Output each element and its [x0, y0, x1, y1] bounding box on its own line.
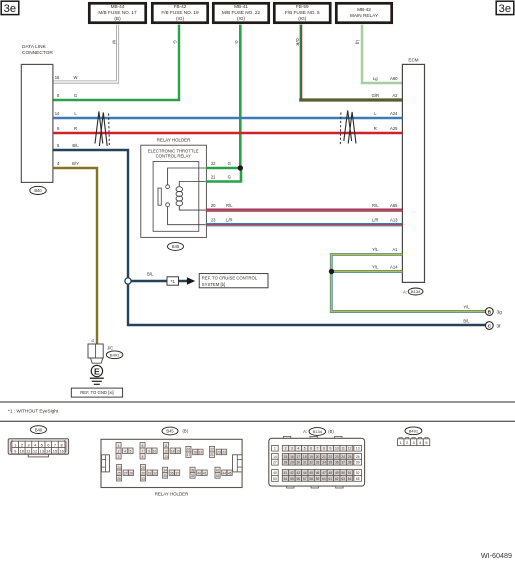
- svg-text:12: 12: [164, 449, 168, 453]
- svg-text:A:: A:: [403, 289, 407, 294]
- svg-text:R/L: R/L: [372, 203, 379, 208]
- svg-text:24: 24: [117, 466, 121, 470]
- svg-text:MB-41: MB-41: [234, 4, 248, 9]
- junction node (Y/L wires): [329, 269, 334, 274]
- svg-text:Y/L: Y/L: [372, 247, 379, 252]
- svg-text:13: 13: [164, 455, 168, 459]
- footnote box *1: [167, 277, 179, 285]
- B45 pin cluster 34-37: [163, 467, 180, 478]
- wire L/R relay pin 23 to ECM A13: [206, 224, 403, 226]
- svg-text:10: 10: [20, 449, 25, 454]
- svg-text:16: 16: [59, 449, 64, 454]
- svg-text:MB-44: MB-44: [111, 4, 125, 9]
- page label 3e left: [1, 1, 19, 15]
- svg-text:50: 50: [341, 471, 345, 475]
- DLC pin 16 label (W): [55, 75, 78, 80]
- wire R (red) DLC 6 to ECM A25: [53, 132, 403, 134]
- separator line upper: [0, 401, 515, 403]
- relay holder label B45 (oval): [168, 243, 184, 251]
- svg-text:3g: 3g: [497, 310, 503, 316]
- svg-text:59: 59: [316, 477, 320, 481]
- svg-text:27: 27: [273, 461, 277, 465]
- svg-text:21: 21: [322, 455, 326, 459]
- svg-text:60: 60: [322, 477, 326, 481]
- svg-text:51: 51: [348, 471, 352, 475]
- svg-text:16: 16: [55, 75, 60, 80]
- svg-text:42: 42: [290, 471, 294, 475]
- svg-text:WI-60489: WI-60489: [481, 551, 512, 560]
- svg-text:3: 3: [413, 440, 415, 445]
- svg-text:1: 1: [274, 447, 276, 451]
- ECM connector label A: B134 (oval): [403, 288, 423, 295]
- svg-text:RELAY HOLDER: RELAY HOLDER: [157, 138, 191, 143]
- svg-text:G: G: [173, 40, 178, 43]
- svg-text:44: 44: [222, 471, 226, 475]
- arrow to cruise control ref: [187, 277, 195, 284]
- connector pinout B40 (data link connector): [8, 439, 68, 457]
- DLC pin 4 label (B/Y): [57, 161, 79, 166]
- ref box: REF. TO CRUISE CONTROL SYSTEM: [199, 274, 268, 288]
- svg-text:1: 1: [118, 444, 120, 448]
- wire R/L relay pin 20 to ECM A65: [206, 209, 403, 211]
- svg-text:*1 : WITHOUT EyeSight: *1 : WITHOUT EyeSight: [8, 408, 59, 413]
- svg-text:REF. TO CRUISE CONTROL: REF. TO CRUISE CONTROL: [202, 275, 258, 280]
- svg-text:B134: B134: [313, 429, 323, 434]
- svg-text:37: 37: [175, 471, 179, 475]
- svg-text:34: 34: [163, 469, 167, 473]
- svg-text:2: 2: [285, 447, 287, 451]
- svg-text:45: 45: [309, 471, 313, 475]
- B45 pin cluster 42-45: [215, 467, 232, 478]
- svg-text:SYSTEM [b]: SYSTEM [b]: [202, 282, 225, 287]
- svg-text:M/B FUSE NO. 17: M/B FUSE NO. 17: [98, 10, 137, 15]
- svg-text:12: 12: [348, 447, 352, 451]
- svg-text:B40: B40: [35, 427, 43, 432]
- svg-text:F/B FUSE NO. 5: F/B FUSE NO. 5: [285, 10, 320, 15]
- svg-text:25: 25: [117, 471, 121, 475]
- svg-text:10: 10: [335, 447, 339, 451]
- svg-text:G: G: [228, 161, 231, 166]
- svg-text:B491: B491: [409, 429, 419, 434]
- svg-text:G: G: [228, 174, 231, 179]
- svg-text:18: 18: [303, 455, 307, 459]
- svg-text:29: 29: [141, 466, 145, 470]
- DLC pin 5 label (B/L): [57, 143, 79, 148]
- svg-text:CONNECTOR: CONNECTOR: [22, 50, 53, 56]
- svg-text:19: 19: [309, 455, 313, 459]
- svg-text:54: 54: [284, 477, 288, 481]
- svg-text:16: 16: [290, 455, 294, 459]
- ground symbol E: [90, 365, 104, 384]
- svg-text:27: 27: [124, 471, 128, 475]
- svg-text:31: 31: [148, 471, 152, 475]
- svg-text:49: 49: [335, 471, 339, 475]
- svg-text:42: 42: [216, 469, 220, 473]
- svg-text:14: 14: [171, 449, 175, 453]
- svg-text:11: 11: [164, 444, 168, 448]
- svg-text:5: 5: [304, 447, 306, 451]
- svg-text:12: 12: [33, 449, 38, 454]
- svg-text:9: 9: [148, 449, 150, 453]
- svg-text:48: 48: [329, 471, 333, 475]
- wire Y/L ECM A1 to junction and B circle: [331, 254, 485, 311]
- connector pinout B45 (relay holder): [101, 427, 512, 560]
- svg-text:3f: 3f: [497, 324, 502, 330]
- DLC pin 8 label (G): [57, 93, 77, 98]
- wire G/R from FB-59 to ECM A2: [295, 25, 402, 102]
- svg-text:35: 35: [329, 461, 333, 465]
- svg-text:R: R: [74, 126, 77, 131]
- svg-text:3e: 3e: [4, 3, 16, 15]
- svg-text:10: 10: [153, 449, 157, 453]
- data link connector (DLC) box: [21, 44, 53, 182]
- DLC pin 14 label (L): [55, 111, 78, 116]
- ECM box: [402, 58, 424, 283]
- svg-text:B134: B134: [411, 289, 421, 294]
- ECM pin A2 label (G/R): [372, 93, 399, 98]
- svg-text:B/L: B/L: [72, 143, 79, 148]
- svg-text:16: 16: [187, 448, 191, 452]
- electronic throttle control relay U1 internals: [153, 162, 205, 232]
- svg-text:L/R: L/R: [226, 218, 233, 223]
- svg-text:20: 20: [217, 451, 221, 455]
- svg-text:18: 18: [193, 451, 197, 455]
- svg-text:8: 8: [323, 447, 325, 451]
- svg-text:29: 29: [290, 461, 294, 465]
- wire Lg from MB-42 MAIN RELAY to ECM A60: [356, 25, 403, 83]
- page label 3e right: [496, 1, 514, 15]
- B45 pin cluster 11-15: [164, 443, 181, 460]
- svg-text:Lg: Lg: [373, 76, 378, 81]
- wire Y/L ECM A14 to junction: [331, 270, 402, 273]
- svg-text:25: 25: [348, 455, 352, 459]
- svg-text:MB-42: MB-42: [357, 7, 371, 12]
- connector pinout B134 label: [303, 428, 334, 436]
- svg-text:31: 31: [303, 461, 307, 465]
- svg-text:7: 7: [317, 447, 319, 451]
- fuse box MB-41: [213, 3, 268, 22]
- svg-text:32: 32: [309, 461, 313, 465]
- svg-text:3: 3: [291, 447, 293, 451]
- svg-text:28: 28: [129, 471, 133, 475]
- svg-text:8: 8: [142, 455, 144, 459]
- relay pin 23 label (L/R): [211, 218, 233, 223]
- svg-text:W: W: [74, 75, 78, 80]
- svg-text:R/L: R/L: [226, 203, 233, 208]
- svg-text:6: 6: [142, 444, 144, 448]
- svg-text:(B): (B): [183, 429, 189, 434]
- svg-text:39: 39: [356, 461, 360, 465]
- wire G vertical from FB-42: [53, 25, 179, 100]
- wire G relay pin 21 to junction: [206, 168, 241, 182]
- svg-text:(IG): (IG): [176, 16, 185, 21]
- svg-text:21: 21: [211, 174, 216, 179]
- svg-text:52: 52: [356, 471, 360, 475]
- svg-text:2: 2: [118, 449, 120, 453]
- svg-text:1: 1: [400, 440, 402, 445]
- svg-text:23: 23: [222, 451, 226, 455]
- svg-text:28: 28: [284, 461, 288, 465]
- connector pinout B45 label (oval): [162, 427, 189, 435]
- svg-text:24: 24: [341, 455, 345, 459]
- svg-text:E: E: [94, 366, 100, 376]
- fuse box MB-44: [89, 3, 145, 22]
- svg-text:DATA LINK: DATA LINK: [22, 44, 47, 50]
- relay pin 20 label (R/L): [211, 203, 233, 208]
- svg-text:38: 38: [348, 461, 352, 465]
- svg-text:53: 53: [273, 477, 277, 481]
- svg-text:55: 55: [290, 477, 294, 481]
- svg-text:23: 23: [211, 218, 216, 223]
- svg-text:26: 26: [117, 477, 121, 481]
- svg-text:B: B: [488, 310, 492, 316]
- svg-text:41: 41: [203, 471, 207, 475]
- svg-text:11: 11: [341, 447, 345, 451]
- svg-text:4: 4: [124, 449, 126, 453]
- svg-text:RELAY HOLDER: RELAY HOLDER: [155, 492, 189, 497]
- svg-text:R: R: [374, 126, 377, 131]
- ECM pin A25 label (R): [374, 126, 398, 131]
- ECM pin A14 label (Y/L): [372, 264, 398, 269]
- svg-text:(IG): (IG): [298, 16, 307, 21]
- relay holder box: [141, 138, 207, 238]
- B45 pin cluster 6-10: [140, 443, 157, 460]
- svg-text:63: 63: [341, 477, 345, 481]
- ECM pin A65 label (R/L): [372, 203, 398, 208]
- svg-text:15: 15: [53, 449, 58, 454]
- svg-text:Lg: Lg: [356, 40, 361, 45]
- svg-text:14: 14: [55, 111, 60, 116]
- svg-text:22: 22: [210, 448, 214, 452]
- svg-text:C: C: [488, 324, 492, 330]
- svg-text:5: 5: [130, 449, 132, 453]
- B45 pin cluster 16-19: [186, 446, 203, 457]
- svg-text:A65: A65: [390, 203, 398, 208]
- svg-text:39: 39: [191, 474, 195, 478]
- connector label B40 (oval): [30, 186, 46, 194]
- svg-text:B/L: B/L: [463, 318, 470, 323]
- B45 pin cluster 24-28: [117, 465, 134, 482]
- wire G vertical from MB-41: [234, 25, 240, 168]
- svg-text:65: 65: [356, 477, 360, 481]
- relay pin 21 label (G): [211, 174, 231, 179]
- svg-text:40: 40: [273, 471, 277, 475]
- wire B/L from DLC 5 down to junction and C circle: [53, 150, 486, 325]
- svg-text:14: 14: [273, 455, 277, 459]
- ref box: REF. TO GND: [71, 388, 122, 397]
- svg-text:B491: B491: [110, 353, 120, 358]
- svg-text:3e: 3e: [499, 3, 511, 15]
- svg-text:B45: B45: [166, 429, 174, 434]
- svg-text:30: 30: [141, 471, 145, 475]
- relay box MB-42 MAIN RELAY: [336, 3, 391, 22]
- connector pinout B40 label (oval): [31, 426, 47, 434]
- svg-text:41: 41: [284, 471, 288, 475]
- wire B/Y from DLC 4 down to joint connector: [53, 168, 97, 344]
- svg-text:64: 64: [348, 477, 352, 481]
- B45 pin cluster 1-5: [116, 443, 133, 460]
- svg-text:22: 22: [329, 455, 333, 459]
- svg-text:REF. TO GND [xi]: REF. TO GND [xi]: [80, 390, 113, 395]
- relay pin 22 label (G): [211, 161, 231, 166]
- svg-text:Y/L: Y/L: [372, 264, 379, 269]
- svg-text:G/R: G/R: [295, 38, 300, 45]
- svg-text:19: 19: [199, 451, 203, 455]
- svg-text:A:: A:: [303, 429, 307, 434]
- svg-text:A1: A1: [392, 247, 398, 252]
- svg-text:B/Y: B/Y: [72, 161, 79, 166]
- svg-text:58: 58: [309, 477, 313, 481]
- wire G relay pin 22 to junction: [206, 167, 241, 169]
- B45 pin cluster 29-33: [140, 465, 157, 482]
- wire B/L branch to cruise control ref: [131, 271, 188, 281]
- svg-text:(B): (B): [328, 429, 334, 434]
- svg-text:45: 45: [228, 471, 232, 475]
- svg-text:20: 20: [316, 455, 320, 459]
- ECM pin A60 label (Lg): [373, 76, 398, 81]
- B45 pin cluster 38-41: [190, 467, 207, 478]
- svg-text:15: 15: [284, 455, 288, 459]
- svg-text:46: 46: [316, 471, 320, 475]
- svg-text:13: 13: [356, 447, 360, 451]
- ECM pin A24 label (L): [374, 111, 398, 116]
- svg-text:17: 17: [187, 453, 191, 457]
- svg-text:21: 21: [210, 453, 214, 457]
- B45 pin cluster 20-23: [210, 446, 227, 457]
- svg-text:J/C: J/C: [107, 345, 113, 350]
- svg-text:B45: B45: [172, 244, 180, 249]
- svg-text:20: 20: [211, 203, 216, 208]
- svg-text:FB-59: FB-59: [296, 4, 309, 9]
- fuse box FB-42: [152, 3, 207, 22]
- connector pinout B491 (joint connector): [398, 438, 430, 446]
- svg-text:3: 3: [118, 455, 120, 459]
- svg-text:37: 37: [341, 461, 345, 465]
- svg-text:15: 15: [176, 449, 180, 453]
- svg-text:40: 40: [197, 471, 201, 475]
- svg-text:ECM: ECM: [408, 58, 418, 63]
- svg-text:36: 36: [170, 471, 174, 475]
- svg-text:F/B FUSE NO. 19: F/B FUSE NO. 19: [161, 10, 199, 15]
- svg-text:G/R: G/R: [372, 93, 379, 98]
- svg-text:14: 14: [46, 449, 51, 454]
- joint connector J/C B491: [88, 344, 123, 363]
- svg-text:5: 5: [425, 440, 427, 445]
- junction circle on B/L wire: [125, 278, 131, 284]
- svg-text:33: 33: [141, 477, 145, 481]
- svg-text:35: 35: [163, 474, 167, 478]
- svg-text:Y/L: Y/L: [463, 304, 470, 309]
- svg-text:30: 30: [296, 461, 300, 465]
- connector circle B / 3g: [485, 308, 502, 316]
- svg-text:B/L: B/L: [147, 271, 154, 276]
- svg-text:CONTROL RELAY: CONTROL RELAY: [156, 154, 192, 159]
- svg-text:6: 6: [310, 447, 312, 451]
- svg-text:*2: *2: [91, 339, 95, 343]
- svg-text:17: 17: [296, 455, 300, 459]
- svg-text:9: 9: [329, 447, 331, 451]
- ECM pin A1 label (Y/L): [372, 247, 398, 252]
- svg-text:56: 56: [296, 477, 300, 481]
- svg-text:A25: A25: [390, 126, 398, 131]
- svg-text:57: 57: [303, 477, 307, 481]
- svg-text:(IG): (IG): [237, 16, 246, 21]
- svg-text:G: G: [74, 93, 77, 98]
- connector circle C / 3f: [485, 322, 501, 330]
- svg-text:*1: *1: [171, 279, 176, 284]
- svg-text:43: 43: [296, 471, 300, 475]
- wire L (blue) DLC 14 to ECM A24: [53, 117, 403, 119]
- svg-text:4: 4: [297, 447, 299, 451]
- svg-text:13: 13: [39, 449, 44, 454]
- svg-text:43: 43: [216, 474, 220, 478]
- separator line lower: [0, 420, 515, 422]
- svg-text:47: 47: [322, 471, 326, 475]
- svg-text:(B): (B): [114, 16, 121, 21]
- connector pinout B491 label (oval): [405, 427, 422, 435]
- svg-text:32: 32: [153, 471, 157, 475]
- svg-text:MAIN RELAY: MAIN RELAY: [350, 13, 379, 18]
- svg-text:23: 23: [335, 455, 339, 459]
- svg-text:62: 62: [335, 477, 339, 481]
- svg-text:G: G: [234, 40, 239, 43]
- svg-text:M/B FUSE NO. 22: M/B FUSE NO. 22: [222, 10, 261, 15]
- svg-text:ELECTRONIC THROTTLE: ELECTRONIC THROTTLE: [148, 148, 199, 153]
- fuse box FB-59: [274, 3, 330, 22]
- svg-text:A24: A24: [390, 111, 398, 116]
- DLC pin 6 label (R): [57, 126, 77, 131]
- svg-text:A14: A14: [390, 264, 398, 269]
- svg-text:22: 22: [211, 161, 216, 166]
- svg-text:A60: A60: [390, 76, 398, 81]
- svg-text:38: 38: [191, 469, 195, 473]
- wire W vertical from MB-44: [53, 25, 119, 84]
- twisted pair symbol (left) on L and R wires: [95, 112, 109, 147]
- svg-text:A13: A13: [390, 218, 398, 223]
- connector pinout B134 (ECM): [269, 436, 365, 488]
- svg-text:26: 26: [356, 455, 360, 459]
- junction node (G wires): [238, 165, 243, 170]
- svg-text:W: W: [112, 40, 117, 44]
- svg-text:A2: A2: [392, 93, 398, 98]
- svg-text:61: 61: [329, 477, 333, 481]
- svg-text:33: 33: [316, 461, 320, 465]
- ECM pin A13 label (L/R): [372, 218, 398, 223]
- svg-text:B40: B40: [34, 188, 42, 193]
- svg-text:2: 2: [406, 440, 408, 445]
- svg-text:FB-42: FB-42: [174, 4, 187, 9]
- svg-text:36: 36: [335, 461, 339, 465]
- twisted pair symbol (right) on L and R wires: [340, 111, 356, 145]
- svg-text:7: 7: [142, 449, 144, 453]
- svg-text:L/R: L/R: [372, 218, 379, 223]
- svg-text:44: 44: [303, 471, 307, 475]
- svg-text:34: 34: [322, 461, 326, 465]
